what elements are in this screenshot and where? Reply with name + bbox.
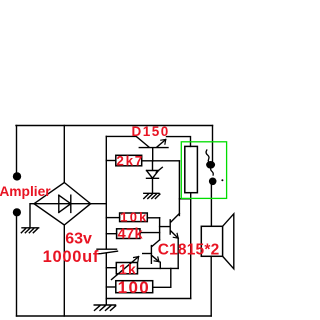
wire 100 rail stub bbox=[106, 286, 115, 288]
svg-text:1000uf: 1000uf bbox=[43, 248, 99, 266]
resistor R3 47k box bbox=[117, 229, 140, 239]
svg-text:Amplier: Amplier bbox=[0, 184, 51, 199]
wire 10k rail stub bbox=[106, 217, 119, 219]
wire 2k7 rail stub bbox=[106, 160, 116, 162]
wire rail top corner to D150 bbox=[106, 135, 136, 137]
ground G3 rail bottom bbox=[94, 305, 116, 310]
wire bridge top stem bbox=[63, 126, 65, 183]
wire coil bottom pin down bbox=[190, 193, 192, 299]
wire 47k rail stub bbox=[106, 233, 116, 235]
stray dot bbox=[221, 179, 223, 181]
wire coil pin to rail ground run bbox=[106, 298, 190, 300]
wire divider vertical bbox=[159, 218, 161, 240]
wire 1k to emitter junction bbox=[138, 267, 179, 269]
wire relay common from top bus bbox=[212, 126, 214, 163]
transistor D150 bbox=[136, 136, 168, 161]
bridge rectifier diamond bbox=[34, 183, 91, 226]
wire 10k to divider vertical bbox=[147, 217, 159, 219]
wire left input drop bbox=[16, 126, 18, 174]
transistor Q2 C1815 bbox=[151, 240, 160, 269]
relay contact dot upper bbox=[206, 161, 215, 169]
svg-text:2k7: 2k7 bbox=[116, 154, 144, 169]
capacitor C1 bottom plate bbox=[97, 251, 118, 254]
relay contact dot lower bbox=[209, 178, 217, 186]
wire relay to speaker bbox=[210, 185, 212, 226]
trimmer arrow on 1k bbox=[112, 257, 139, 280]
svg-text:10k: 10k bbox=[120, 209, 148, 224]
relay enclosure green box bbox=[181, 142, 226, 199]
relay coil K1 bbox=[185, 146, 198, 192]
node input terminal B bbox=[13, 208, 21, 216]
relay armature squiggle bbox=[206, 150, 213, 175]
wire 1k rail stub bbox=[106, 267, 116, 269]
wire bridge left vertex to ground bbox=[30, 204, 34, 228]
svg-text:D150: D150 bbox=[132, 124, 170, 139]
wire 2k7 to base node bbox=[142, 160, 180, 162]
wire bottom bus bbox=[17, 315, 212, 317]
resistor R4 1k box bbox=[116, 263, 137, 274]
resistor R5 100 box bbox=[116, 281, 153, 293]
node input terminal A bbox=[13, 172, 21, 180]
transistor Q1 C1815 bbox=[160, 214, 180, 269]
capacitor C1 top plate bbox=[97, 248, 117, 250]
wire D150 emitter to relay coil bbox=[167, 137, 191, 147]
speaker LS1 bbox=[201, 226, 222, 256]
wire main rail upper bbox=[105, 136, 107, 249]
svg-text:63v: 63v bbox=[65, 230, 92, 247]
wire base node down to Q1 collector bbox=[178, 161, 180, 216]
wire 100 right run bbox=[153, 268, 171, 287]
ground G1 bbox=[21, 228, 38, 233]
wire Q2 base stub bbox=[143, 253, 152, 255]
wire bridge bottom stem bbox=[63, 225, 65, 316]
wire bridge right vertex to rail bbox=[91, 203, 107, 205]
diode D1 inside bridge bbox=[34, 195, 91, 212]
wire left bottom drop bbox=[16, 216, 18, 316]
resistor R2 10k box bbox=[120, 213, 148, 222]
wire zener to ground bbox=[152, 178, 154, 193]
zener diode ZD1 bbox=[147, 161, 163, 178]
svg-text:100: 100 bbox=[118, 278, 151, 297]
ground G2 zener bbox=[144, 193, 160, 198]
resistor R1 2k7 box bbox=[116, 155, 142, 166]
wire base node branch to coil bottom bbox=[179, 198, 190, 200]
wire main rail lower bbox=[105, 253, 107, 305]
svg-text:C1815*2: C1815*2 bbox=[158, 241, 220, 258]
svg-text:47k: 47k bbox=[118, 227, 144, 243]
wire top bus bbox=[16, 125, 213, 127]
wire 47k to divider vertical bbox=[140, 232, 160, 234]
wire speaker bottom drop bbox=[210, 256, 212, 316]
svg-text:1k: 1k bbox=[119, 261, 137, 277]
